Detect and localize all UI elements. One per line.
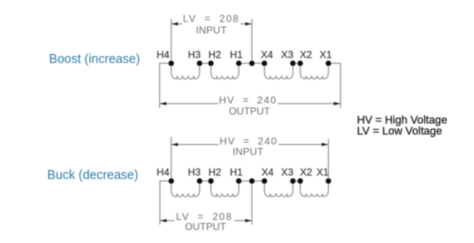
svg-text:X1: X1	[316, 167, 329, 178]
arrowhead: bottom HV left	[171, 143, 178, 146]
svg-text:HV = 240: HV = 240	[219, 95, 277, 106]
node H4 (bottom)	[168, 178, 174, 184]
dimension line: top LV left segment	[171, 23, 182, 25]
node neutral junction (bottom)	[249, 178, 255, 184]
arrowhead: bottom HV right	[322, 143, 329, 146]
extension line: top LV right at neutral node	[251, 19, 253, 61]
dimension line: top LV right segment	[240, 23, 252, 25]
wire: bottom-left corner from H4 down to LV dimension	[160, 181, 171, 225]
dimension line: top HV left segment	[160, 103, 219, 105]
svg-text:X3: X3	[281, 50, 294, 61]
svg-text:H3: H3	[188, 167, 201, 178]
dimension line: bottom LV left segment	[160, 220, 175, 222]
dimension line: bottom HV left segment	[171, 144, 218, 146]
winding H4-H3 (top)	[171, 63, 199, 79]
wire: top-right corner from X1 down to HV dimension	[328, 63, 340, 108]
svg-text:OUTPUT: OUTPUT	[185, 222, 226, 233]
wire: top bus X3-X2	[293, 62, 300, 64]
svg-text:H1: H1	[230, 167, 243, 178]
dimension line: bottom LV right segment	[234, 220, 252, 222]
svg-text:X3: X3	[281, 167, 294, 178]
node X2 (top)	[297, 61, 303, 67]
wire: top bus H1-X4 through neutral node	[239, 62, 265, 64]
extension line: bottom HV left at H4	[170, 137, 172, 179]
svg-text:X2: X2	[300, 50, 313, 61]
winding X2-X1 (top)	[300, 63, 328, 79]
node neutral junction (top)	[249, 61, 255, 67]
svg-text:INPUT: INPUT	[196, 25, 227, 36]
svg-text:H4: H4	[157, 167, 170, 178]
svg-text:X1: X1	[320, 50, 333, 61]
node H3 (bottom)	[197, 178, 203, 184]
wire: top-left corner from H4 down to HV dimension	[160, 63, 172, 108]
wire: bottom bus H3-H2	[200, 180, 211, 182]
svg-text:LV = 208: LV = 208	[183, 14, 240, 25]
wire: top bus H3-H2	[200, 62, 211, 64]
node X1 (top)	[326, 61, 332, 67]
arrowhead: top HV right	[334, 102, 341, 105]
node H4 (top)	[168, 61, 174, 67]
winding H4-H3 (bottom)	[171, 181, 199, 197]
node X3 (bottom)	[290, 178, 296, 184]
node H2 (bottom)	[208, 178, 214, 184]
wire: bottom bus H1-X4 through neutral node	[239, 180, 265, 182]
arrowhead: bottom LV left	[160, 219, 167, 222]
svg-text:H4: H4	[157, 50, 170, 61]
winding H2-H1 (top)	[211, 63, 239, 79]
svg-text:X4: X4	[261, 167, 274, 178]
node H2 (top)	[208, 61, 214, 67]
node H1 (top)	[236, 61, 242, 67]
svg-text:H3: H3	[188, 50, 201, 61]
svg-text:Boost (increase): Boost (increase)	[49, 52, 140, 66]
node X4 (bottom)	[262, 178, 268, 184]
node H1 (bottom)	[236, 178, 242, 184]
winding X2-X1 (bottom)	[300, 181, 328, 197]
winding X4-X3 (bottom)	[264, 181, 293, 197]
arrowhead: bottom LV right	[245, 219, 252, 222]
svg-text:H2: H2	[208, 167, 221, 178]
node X3 (top)	[290, 61, 296, 67]
arrowhead: top LV right	[245, 22, 252, 25]
winding H2-H1 (bottom)	[211, 181, 239, 197]
arrowhead: top HV left	[160, 102, 167, 105]
extension line: top LV left at H4	[170, 19, 172, 61]
svg-text:LV = Low Voltage: LV = Low Voltage	[357, 125, 442, 137]
winding X4-X3 (top)	[264, 63, 293, 79]
arrowhead: top LV left	[171, 22, 178, 25]
svg-text:OUTPUT: OUTPUT	[229, 106, 270, 117]
svg-text:INPUT: INPUT	[233, 147, 264, 158]
svg-text:X2: X2	[300, 167, 313, 178]
node H3 (top)	[197, 61, 203, 67]
svg-text:HV = 240: HV = 240	[220, 136, 278, 147]
svg-text:H1: H1	[230, 50, 243, 61]
dimension line: bottom HV right segment	[279, 144, 329, 146]
svg-text:Buck (decrease): Buck (decrease)	[47, 168, 138, 182]
svg-text:H2: H2	[208, 50, 221, 61]
dimension line: top HV right segment	[278, 103, 341, 105]
extension line: bottom HV right at X1	[327, 139, 329, 178]
node X1 (bottom)	[326, 178, 332, 184]
wire: bottom bus X3-X2	[293, 180, 300, 182]
wire: neutral node drop to LV dimension (bottom)	[251, 184, 253, 225]
node X4 (top)	[262, 61, 268, 67]
svg-text:X4: X4	[261, 50, 274, 61]
node X2 (bottom)	[297, 178, 303, 184]
